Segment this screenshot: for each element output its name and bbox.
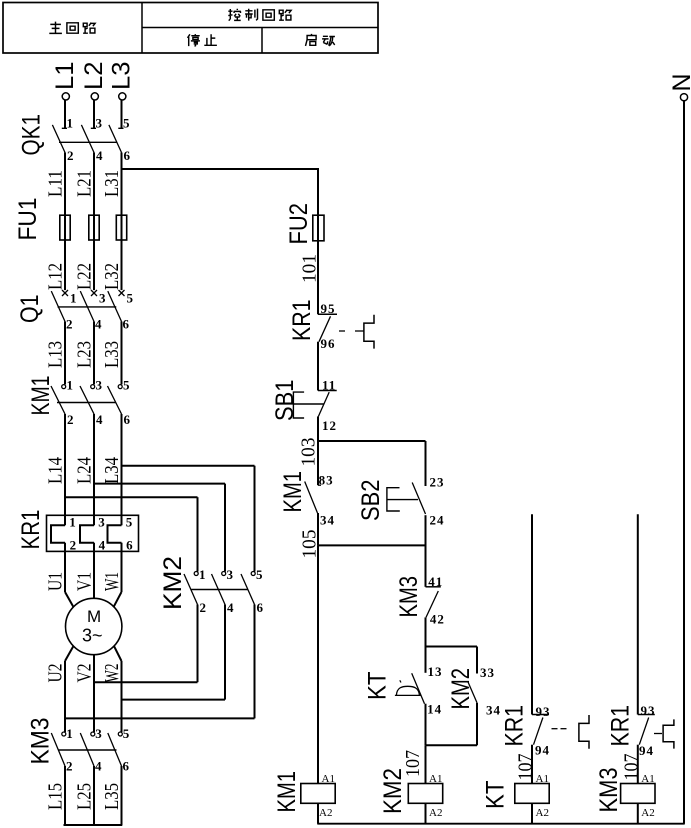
svg-text:A2: A2 [641, 807, 654, 819]
contactor KM2 main label [159, 556, 187, 610]
svg-text:6: 6 [124, 148, 131, 163]
svg-text:34: 34 [486, 703, 501, 718]
neutral N wire [683, 101, 685, 824]
svg-text:2: 2 [200, 600, 207, 615]
svg-text:KR1: KR1 [501, 705, 529, 747]
wire to KR1 contact (KM3 branch) [637, 514, 639, 714]
table text start [306, 34, 335, 46]
QK1 pole 2 [81, 100, 103, 163]
FU1 fuse 2 [89, 215, 99, 240]
wire L24 [73, 414, 95, 525]
svg-text:6: 6 [124, 412, 131, 427]
KR1 heater box [47, 515, 139, 551]
breaker Q1 label [16, 295, 44, 324]
svg-text:101: 101 [299, 254, 321, 283]
coil KM3 [595, 768, 655, 824]
svg-text:4: 4 [96, 148, 103, 163]
Q1 pole 1 [51, 290, 76, 332]
wire L35 [101, 766, 123, 825]
QK1 pole 1 [52, 100, 73, 163]
wire U2 [45, 646, 74, 732]
wire L32 [101, 240, 123, 290]
terminal L2 [80, 62, 108, 101]
KR1 contact 93-94 (KT branch) [501, 704, 551, 758]
svg-text:3: 3 [99, 291, 106, 306]
svg-text:KR1: KR1 [17, 510, 45, 550]
svg-text:A2: A2 [536, 807, 549, 819]
terminal L3 [108, 62, 136, 101]
svg-text:4: 4 [227, 600, 234, 615]
KM2 linkage bar [191, 589, 248, 591]
svg-text:Q1: Q1 [16, 295, 44, 324]
wire 24 down [425, 515, 427, 587]
svg-text:2: 2 [66, 317, 73, 332]
wire L11 [44, 153, 66, 216]
wire 12 / node 103 [298, 416, 426, 466]
svg-text:1: 1 [67, 116, 74, 131]
control tap wire from L31 [122, 169, 319, 215]
svg-text:N: N [668, 73, 691, 91]
svg-text:3: 3 [98, 515, 105, 530]
stop button SB1 [271, 380, 337, 434]
svg-text:1: 1 [199, 567, 206, 582]
svg-text:V1: V1 [74, 572, 96, 591]
svg-text:3: 3 [227, 567, 234, 582]
svg-text:M: M [87, 607, 101, 626]
svg-text:5: 5 [127, 291, 134, 306]
svg-text:L11: L11 [44, 170, 66, 197]
svg-text:2: 2 [66, 759, 73, 774]
svg-text:W2: W2 [101, 664, 123, 683]
KM1 main contact 3 [108, 378, 131, 428]
KM1 main contact 2 [80, 378, 103, 428]
KM3 main contact 2 [80, 726, 102, 774]
svg-text:W1: W1 [101, 572, 123, 591]
svg-text:KM1: KM1 [273, 771, 301, 813]
wire to KR1 contact (KT branch) [531, 514, 533, 714]
svg-text:6: 6 [257, 600, 264, 615]
svg-text:107: 107 [620, 754, 642, 781]
QK1 pole 3 [109, 100, 131, 163]
motor M 3~ [66, 598, 122, 654]
svg-text:L21: L21 [73, 170, 95, 197]
table text main circuit [49, 22, 95, 34]
KM2 main contact 3 [241, 466, 264, 719]
fuse FU2 [285, 203, 324, 245]
svg-text:1: 1 [66, 726, 73, 741]
svg-text:2: 2 [70, 538, 77, 553]
wire W2 [101, 646, 123, 732]
wire L12 [44, 240, 66, 290]
timer KT delayed contact 13-14 [364, 647, 443, 717]
wire V2 [74, 655, 96, 732]
coil KM2 [379, 768, 443, 824]
Q1 pole 3 [108, 290, 134, 332]
wire 107 to KM3 coil [620, 745, 642, 784]
coil KT [482, 773, 550, 824]
svg-text:L1: L1 [51, 62, 79, 91]
KM1 main contact 1 [51, 378, 74, 428]
wire V2 to KM2 pole 1 bottom [94, 681, 198, 683]
wire L33 [101, 322, 123, 385]
table text stop [188, 34, 217, 46]
svg-text:L25: L25 [73, 783, 95, 810]
svg-text:2: 2 [67, 412, 74, 427]
svg-text:A2: A2 [429, 807, 442, 819]
svg-text:L33: L33 [101, 341, 123, 368]
switch QK1 label [18, 114, 46, 156]
KM3 NC interlock contact 41-42 [395, 574, 445, 627]
svg-text:5: 5 [123, 116, 130, 131]
svg-text:13: 13 [428, 664, 443, 679]
wire tap to KM2 pole 1 [65, 496, 198, 498]
wire node 105 [299, 513, 426, 559]
svg-text:6: 6 [123, 317, 130, 332]
wire 107 to KM2 coil [402, 745, 426, 783]
wire tap to KM2 pole 3 [122, 465, 255, 467]
wire V1 [74, 551, 96, 598]
svg-text:L2: L2 [80, 62, 108, 91]
fuse FU1 label [14, 198, 42, 241]
KM1 aux contact 83-84 [279, 441, 335, 528]
KR1 trip linkage symbol (KT branch) [552, 715, 590, 749]
svg-text:3~: 3~ [82, 626, 103, 646]
wire tap to KM2 pole 2 [94, 483, 225, 485]
bottom control rail [317, 823, 684, 825]
KM2 main contact 1 [184, 497, 206, 682]
wire L22 [73, 240, 95, 290]
svg-text:24: 24 [430, 512, 445, 527]
svg-text:KT: KT [482, 781, 510, 810]
contactor KM1 main label [27, 376, 55, 416]
svg-text:A1: A1 [536, 773, 549, 785]
svg-text:3: 3 [96, 116, 103, 131]
svg-text:KM3: KM3 [27, 718, 55, 765]
wire W1 [101, 551, 123, 607]
svg-text:4: 4 [99, 538, 106, 553]
wire L15 [44, 766, 66, 825]
svg-text:KR1: KR1 [288, 300, 316, 342]
wire L31 [101, 153, 123, 216]
svg-text:42: 42 [430, 612, 445, 627]
svg-text:2: 2 [67, 148, 74, 163]
wire L23 [73, 322, 95, 385]
svg-text:103: 103 [298, 438, 320, 467]
svg-text:5: 5 [256, 567, 263, 582]
svg-text:5: 5 [126, 515, 133, 530]
svg-text:96: 96 [321, 336, 336, 351]
FU1 fuse 1 [60, 215, 70, 240]
svg-text:V2: V2 [74, 664, 96, 683]
wire U2 to KM2 pole 3 bottom [65, 717, 255, 719]
legend table [3, 3, 378, 54]
svg-text:23: 23 [430, 475, 445, 490]
wire to KM1 coil [317, 545, 319, 783]
svg-text:U2: U2 [45, 664, 67, 683]
wire L13 [44, 322, 66, 385]
svg-text:SB2: SB2 [357, 480, 385, 522]
svg-text:41: 41 [428, 574, 443, 589]
svg-text:4: 4 [95, 759, 102, 774]
svg-text:L35: L35 [101, 783, 123, 810]
svg-text:A1: A1 [641, 773, 654, 785]
svg-text:L32: L32 [101, 263, 123, 290]
svg-text:95: 95 [321, 301, 336, 316]
svg-text:KM1: KM1 [27, 376, 55, 416]
svg-text:83: 83 [319, 473, 334, 488]
wire U1 [45, 551, 74, 607]
svg-text:12: 12 [322, 418, 337, 433]
KR1 trip linkage symbol (KM3 branch) [654, 719, 674, 748]
KM3 main contact 3 [108, 726, 130, 774]
contactor KM3 main label [27, 718, 55, 765]
thermal relay KR1 NC contact 95-96 [288, 300, 337, 352]
terminal L1 [51, 62, 79, 101]
svg-text:94: 94 [535, 743, 550, 758]
svg-text:4: 4 [96, 412, 103, 427]
svg-text:L23: L23 [73, 341, 95, 368]
wire L21 [73, 153, 95, 216]
thermal relay KR1 heater label [17, 510, 45, 550]
svg-text:14: 14 [427, 701, 442, 716]
svg-text:KM2: KM2 [159, 556, 187, 610]
KR1 heater element 2 [80, 515, 106, 553]
neutral N terminal [668, 73, 691, 100]
svg-text:KM1: KM1 [279, 471, 307, 513]
svg-text:A1: A1 [429, 773, 442, 785]
svg-text:L22: L22 [73, 263, 95, 290]
svg-text:5: 5 [123, 378, 130, 393]
svg-text:KM3: KM3 [595, 768, 623, 813]
svg-text:L24: L24 [73, 457, 95, 484]
svg-text:QK1: QK1 [18, 114, 46, 156]
svg-text:FU2: FU2 [285, 203, 313, 245]
svg-text:1: 1 [69, 515, 76, 530]
svg-text:4: 4 [95, 317, 102, 332]
wire L25 [73, 766, 95, 825]
svg-text:5: 5 [123, 726, 130, 741]
KM3 main contact 1 [51, 726, 73, 774]
FU1 fuse 3 [116, 215, 126, 240]
svg-text:1: 1 [67, 378, 74, 393]
svg-text:33: 33 [480, 665, 495, 680]
svg-text:U1: U1 [45, 572, 67, 591]
Q1 linkage bar [58, 306, 117, 308]
svg-text:SB1: SB1 [271, 380, 299, 422]
wire 11 [318, 342, 336, 393]
wire 107 to KT coil [515, 745, 537, 784]
svg-text:L14: L14 [44, 457, 66, 484]
svg-text:93: 93 [641, 703, 656, 718]
svg-text:L12: L12 [44, 263, 66, 290]
KR1 heater element 3 [108, 515, 134, 553]
svg-text:L13: L13 [44, 341, 66, 368]
star point bar [64, 824, 123, 826]
KM1 linkage bar [57, 402, 116, 404]
QK1 linkage bar [59, 141, 117, 143]
table text control circuit [228, 9, 291, 21]
svg-text:3: 3 [95, 726, 102, 741]
wire L14 [44, 414, 66, 525]
svg-text:3: 3 [96, 378, 103, 393]
svg-text:FU1: FU1 [14, 198, 42, 241]
start button SB2 [357, 441, 445, 527]
svg-text:A1: A1 [322, 773, 335, 785]
svg-text:KM2: KM2 [379, 768, 407, 814]
coil KM1 [273, 771, 335, 824]
KR1 contact 93-94 (KM3 branch) [606, 703, 655, 758]
svg-text:93: 93 [536, 704, 551, 719]
junction wire 14/34 to node 107 [426, 704, 478, 746]
svg-text:6: 6 [123, 759, 130, 774]
KR1 heater element 1 [51, 515, 76, 553]
KR1 trip linkage symbol [339, 315, 374, 349]
KM2 aux contact 33-34 [447, 647, 501, 746]
wire 101 [299, 241, 321, 314]
svg-text:KM3: KM3 [395, 576, 423, 618]
svg-text:L15: L15 [44, 783, 66, 810]
svg-text:107: 107 [515, 754, 537, 781]
wire 42 / junction [426, 617, 478, 646]
svg-text:6: 6 [126, 538, 133, 553]
svg-text:34: 34 [320, 513, 335, 528]
svg-text:KR1: KR1 [606, 705, 634, 747]
KM2 main contact 2 [212, 484, 235, 700]
KM3 linkage bar [58, 749, 117, 751]
svg-text:L31: L31 [101, 170, 123, 197]
wire L34 [101, 414, 123, 525]
svg-text:L3: L3 [108, 62, 136, 91]
svg-text:KT: KT [364, 672, 392, 701]
svg-text:L34: L34 [101, 457, 123, 484]
wire W2 to KM2 pole 2 bottom [122, 699, 226, 701]
Q1 pole 2 [80, 290, 106, 332]
svg-text:1: 1 [70, 291, 77, 306]
svg-text:A2: A2 [319, 807, 332, 819]
